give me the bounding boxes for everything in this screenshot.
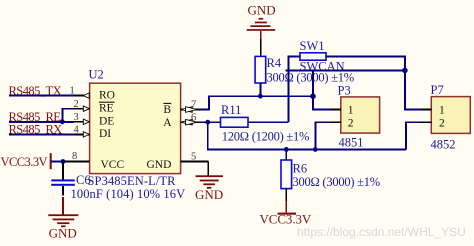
wire pin6 drop to A rail [208,122,406,149]
pin 4 (DI) [74,132,90,137]
pin 8 (VCC) [66,161,90,163]
wire SWCAN horizontal [286,69,405,71]
pin 5 (GND) [181,162,209,176]
svg-text:5: 5 [191,152,196,163]
P3 pin 2 stub [330,121,340,123]
svg-text:B: B [163,104,171,116]
junction P3 pin2 riser on A rail [313,147,318,152]
svg-text:4: 4 [74,124,80,135]
wire RS485_RE to pin 3 [9,121,74,123]
svg-text:3: 3 [74,112,79,123]
resistor R4 [255,56,266,96]
wire VCC3.3V to pin 8 [52,161,66,163]
svg-text:1: 1 [348,105,354,117]
svg-text:2: 2 [348,117,354,129]
P7 pin 2 stub [421,121,431,123]
svg-text:SW1: SW1 [300,39,325,53]
junction SWCAN riser on B rail [310,93,316,99]
wire SW1 right to P7 pin1 riser [326,56,421,109]
svg-text:4851: 4851 [339,135,364,149]
pin name B (active low) [163,103,171,116]
resistor R6 [281,149,292,212]
pin 3 (DE) [74,119,90,124]
svg-text:GND: GND [147,159,172,171]
wire RS485_TX to pin 1 [9,95,74,97]
wire pin6 to R11 [201,121,221,123]
connector P7 body [431,97,470,134]
svg-text:RE: RE [99,102,114,114]
svg-text:6: 6 [191,112,196,123]
connector P3 body [341,97,380,133]
ground below C6 [48,197,78,241]
svg-text:VCC: VCC [101,159,125,171]
junction at C6 tap [61,159,66,164]
svg-text:300Ω (3000) ±1%: 300Ω (3000) ±1% [293,175,380,189]
wire P7 pin 2 riser [406,122,421,149]
svg-text:GND: GND [248,2,276,17]
switch SW1 body [300,53,326,60]
svg-text:2: 2 [74,99,79,110]
wire GND to R4 [260,39,262,56]
svg-text:A: A [163,117,172,129]
power port VCC3.3V (bottom) [260,212,312,227]
svg-text:100nF (104) 10% 16V: 100nF (104) 10% 16V [71,187,186,201]
junction on RE wire [60,119,65,124]
P3 pin 1 stub [330,108,340,110]
pin 6 (A) [181,119,201,125]
svg-text:C6: C6 [76,173,91,187]
junction R6 on A rail [284,147,289,152]
junction SWCAN at P7 riser [402,68,408,74]
power port VCC3.3V (left) [1,153,52,169]
pin name RE (active low) [99,102,115,114]
svg-text:R6: R6 [293,161,308,175]
pin 7 (B) [181,107,201,113]
pin 2 (RE) [74,106,90,111]
junction pin6 / R11 [205,120,210,125]
wire RS485_RX to pin 4 [9,133,74,135]
IC U2 body [90,83,181,173]
svg-text:DI: DI [99,128,111,140]
P7 pin 1 stub [421,109,431,111]
junction R4 on B rail [258,94,263,99]
wire P3 pin 2 riser [315,122,330,149]
wire pin7 riser to B rail [201,96,313,109]
svg-text:4852: 4852 [431,137,456,151]
svg-text:RO: RO [99,90,115,102]
wire SW1 left to R11 right [288,56,300,122]
svg-text:GND: GND [49,226,77,241]
svg-text:R4: R4 [267,56,282,70]
svg-text:2: 2 [439,117,445,129]
svg-text:DE: DE [99,116,114,128]
resistor R11 [221,117,289,127]
svg-text:R11: R11 [221,103,241,117]
svg-text:https://blog.csdn.net/WHL_YSU: https://blog.csdn.net/WHL_YSU [297,225,466,239]
capacitor C6 [51,162,75,196]
svg-text:1: 1 [439,105,445,117]
wire branch to pin 2 [62,109,74,122]
svg-text:7: 7 [191,99,196,110]
svg-text:P7: P7 [431,83,444,97]
svg-text:120Ω (1200) ±1%: 120Ω (1200) ±1% [222,130,309,144]
svg-text:P3: P3 [338,83,351,97]
svg-text:8: 8 [72,151,77,162]
svg-text:SP3485EN-L/TR: SP3485EN-L/TR [88,174,177,188]
svg-text:U2: U2 [89,68,104,82]
svg-text:VCC3.3V: VCC3.3V [1,155,48,169]
pin 1 (RO) [74,93,90,98]
wire SWCAN riser to P3 pin 1 [313,70,330,109]
svg-text:GND: GND [195,187,223,202]
ground at pin 5 [195,175,223,202]
ground above R4 [247,2,276,39]
